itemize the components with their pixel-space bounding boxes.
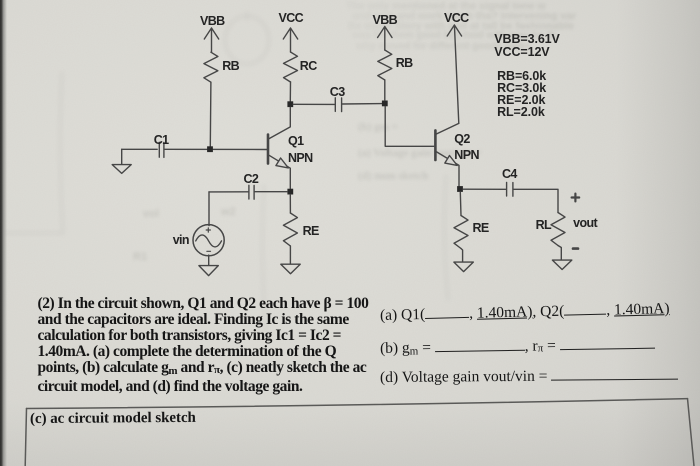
label VCC stage2 (444, 12, 469, 25)
wire C2 row: vin to C2 (209, 191, 248, 193)
value RC=3.0k (497, 82, 546, 95)
wire J4 down to RE1 (289, 195, 291, 213)
power VBB supply arrow stage2 (378, 27, 392, 51)
label C1 (154, 134, 169, 147)
wire C3 to J2 (342, 103, 382, 105)
ground below RE1 (281, 264, 300, 274)
answer line (b) (380, 336, 655, 358)
label VCC stage1 (279, 12, 304, 25)
label Q2 (454, 133, 469, 146)
ground at C1 (left) (112, 149, 131, 173)
ground below vin (199, 266, 218, 276)
wire RE2 to ground (461, 249, 463, 262)
resistor RE (stage1) (283, 213, 297, 246)
value RL=2.0k (497, 106, 545, 119)
label VBB stage2 (373, 14, 398, 27)
wire base row: ground stub to C1 (122, 148, 158, 150)
power VBB supply arrow stage1 (204, 28, 218, 52)
label C3 (330, 86, 345, 99)
label RE stage1 (303, 225, 319, 238)
label Q1 (288, 135, 303, 148)
label RB stage2 (396, 57, 413, 70)
label vin (173, 234, 189, 247)
wire J1 to C3 (293, 103, 334, 105)
label NPN (Q2) (454, 149, 479, 162)
wire C1 to Q1 base (165, 148, 267, 150)
ground below RL (552, 260, 571, 269)
wire J5 down to RE2 (459, 192, 462, 215)
node junction J2 (RB2 / C3 / Q2 base feed) (382, 101, 388, 107)
resistor RB (stage2) (378, 50, 392, 80)
transistor Q2 NPN (435, 123, 459, 186)
wire C4 to RL top (514, 189, 558, 212)
label C4 (502, 168, 517, 181)
value RB=6.0k (497, 70, 546, 83)
wire vin to ground (208, 255, 210, 265)
wire RB bottom to base node (209, 82, 212, 146)
value VBB=3.61V (494, 33, 559, 46)
label RC (300, 60, 317, 73)
wire J2 down and right to Q2 base (385, 106, 434, 146)
capacitor C3 (335, 98, 341, 112)
value RE=2.0k (497, 94, 545, 107)
label NPN (Q1) (288, 152, 313, 165)
photo edge dark strip left (0, 0, 8, 466)
transistor Q1 NPN (268, 107, 290, 188)
source vin (ac) (193, 225, 224, 256)
node junction J5 (Q2 emitter / RE / C4) (457, 186, 463, 192)
capacitor C2 (249, 185, 254, 199)
problem statement paragraph (38, 296, 369, 396)
wire RL to ground (558, 246, 561, 260)
wire RC bottom to node (289, 82, 291, 101)
bleed-through ghost text middle (358, 121, 398, 133)
label RL (536, 219, 551, 232)
label - (vout polarity) (573, 247, 578, 250)
label RE stage2 (473, 222, 489, 235)
wire vin top (208, 192, 210, 226)
label C2 (244, 173, 259, 186)
label + (vout polarity) (572, 194, 580, 202)
answer line (a) (380, 300, 670, 325)
wire C2 to J4 (255, 191, 287, 193)
power VCC supply arrow stage1 (283, 28, 297, 52)
answer line (d) (380, 366, 678, 386)
label VBB stage1 (200, 15, 225, 28)
resistor RE (stage2) (454, 216, 468, 249)
resistor RC (284, 52, 298, 82)
wire RB2 to J2 (384, 80, 386, 100)
node junction J4 (Q1 emitter / RE / C2) (287, 189, 293, 195)
power VCC supply arrow stage2 (447, 25, 461, 123)
label RB stage1 (222, 60, 239, 73)
wire J5 to C4 (463, 188, 506, 190)
resistor RL (551, 213, 565, 246)
capacitor C4 (507, 182, 513, 196)
resistor RB (stage1) (204, 52, 218, 82)
wire RE1 to ground (289, 246, 291, 264)
node junction J3 (RB1 / C1 / Q1 base) (207, 146, 213, 152)
capacitor C1 (159, 142, 164, 157)
answer box frame bottom (25, 399, 694, 466)
node junction J1 (RC / C3 / Q1 collector) (287, 101, 293, 107)
ground below RE2 (454, 262, 473, 272)
value VCC=12V (494, 46, 549, 59)
answer box label (c) (29, 410, 195, 428)
label vout (573, 217, 597, 230)
